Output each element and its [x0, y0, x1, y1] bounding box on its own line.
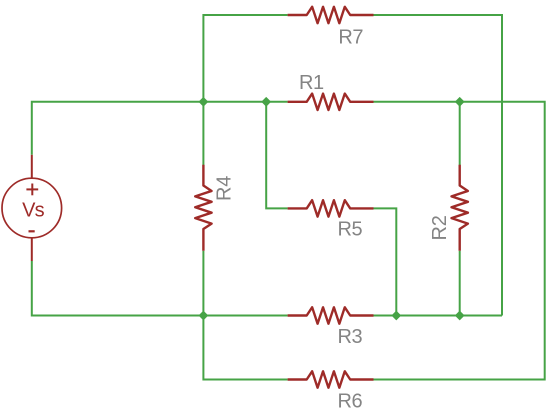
svg-text:R3: R3 — [338, 326, 363, 348]
resistor R4 — [195, 165, 211, 251]
node C junction (R1 row / R2 top) — [455, 97, 465, 107]
Vs minus sign — [29, 230, 35, 232]
svg-text:R1: R1 — [299, 72, 324, 94]
Vs top lead — [31, 155, 33, 178]
node B junction (R1 row / R5 branch) — [261, 97, 271, 107]
svg-text:R5: R5 — [338, 218, 363, 240]
wire R3 right to right column — [374, 315, 503, 317]
svg-text:R4: R4 — [214, 176, 236, 201]
voltage source Vs — [2, 155, 62, 261]
node D junction (R3 row / R4 bottom) — [199, 311, 209, 321]
wire node D down to R6 row — [203, 316, 287, 380]
wire R2 column upper — [459, 102, 461, 165]
resistor R3 — [288, 307, 374, 323]
node E junction (R3 row / R5 branch) — [391, 311, 401, 321]
wire Vs bottom to R3 row — [32, 261, 288, 316]
resistor R1 — [288, 94, 374, 110]
wire R2 column lower — [459, 251, 461, 316]
Vs plus sign — [26, 188, 38, 190]
resistor R7 — [288, 7, 374, 23]
svg-text:Vs: Vs — [22, 200, 45, 222]
wire left: Vs top to R1 row — [32, 102, 288, 155]
svg-text:R7: R7 — [338, 27, 363, 49]
wire R4 column lower — [202, 251, 204, 316]
wire R5 right down to R3 row — [374, 208, 397, 315]
wire R4 column upper — [202, 102, 204, 165]
node F junction (R3 row / R2 bottom) — [455, 311, 465, 321]
svg-text:R6: R6 — [338, 390, 363, 412]
Vs bottom lead — [31, 238, 33, 261]
wire node B down to R5 left — [266, 102, 287, 209]
wire top-left corner: node A up to R7 row — [203, 15, 287, 102]
wire R1 right to far-right column down to R6 row — [374, 102, 545, 380]
node A junction (R1 row / R4 top) — [199, 97, 209, 107]
Vs circle body — [2, 178, 62, 238]
wire R7 right down to R3 row — [374, 15, 503, 316]
svg-text:R2: R2 — [429, 215, 451, 240]
resistor R2 — [452, 165, 468, 251]
resistor R5 — [288, 200, 374, 216]
resistor R6 — [288, 371, 374, 387]
